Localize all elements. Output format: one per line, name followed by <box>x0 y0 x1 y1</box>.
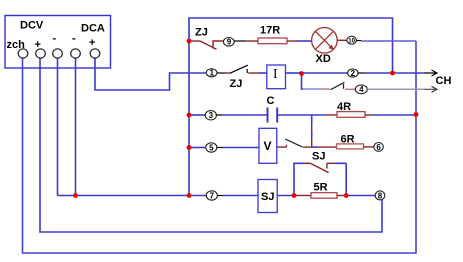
svg-text:-: - <box>72 33 76 45</box>
svg-text:DCV: DCV <box>20 20 44 32</box>
svg-text:9: 9 <box>227 38 232 47</box>
svg-text:I: I <box>273 66 278 81</box>
svg-text:3: 3 <box>209 111 214 120</box>
svg-text:7: 7 <box>210 191 215 200</box>
svg-text:6R: 6R <box>341 134 355 146</box>
svg-text:5R: 5R <box>314 182 328 194</box>
svg-text:+: + <box>89 37 95 49</box>
svg-text:4R: 4R <box>337 101 351 113</box>
svg-text:C: C <box>267 95 275 107</box>
svg-text:4: 4 <box>359 85 364 94</box>
svg-text:DCA: DCA <box>81 23 105 35</box>
svg-text:5: 5 <box>209 143 214 152</box>
svg-text:ZJ: ZJ <box>195 27 208 39</box>
svg-text:SJ: SJ <box>261 191 274 203</box>
svg-text:CH: CH <box>436 75 452 87</box>
svg-text:10: 10 <box>348 39 355 45</box>
svg-text:-: - <box>53 33 57 45</box>
svg-text:SJ: SJ <box>312 151 325 163</box>
svg-text:2: 2 <box>351 69 356 78</box>
svg-text:ZJ: ZJ <box>230 78 243 90</box>
svg-text:17R: 17R <box>260 25 280 37</box>
svg-text:V: V <box>264 139 272 153</box>
svg-text:1: 1 <box>210 69 215 78</box>
svg-text:6: 6 <box>376 143 381 152</box>
svg-text:XD: XD <box>316 53 331 65</box>
svg-text:8: 8 <box>378 191 383 200</box>
